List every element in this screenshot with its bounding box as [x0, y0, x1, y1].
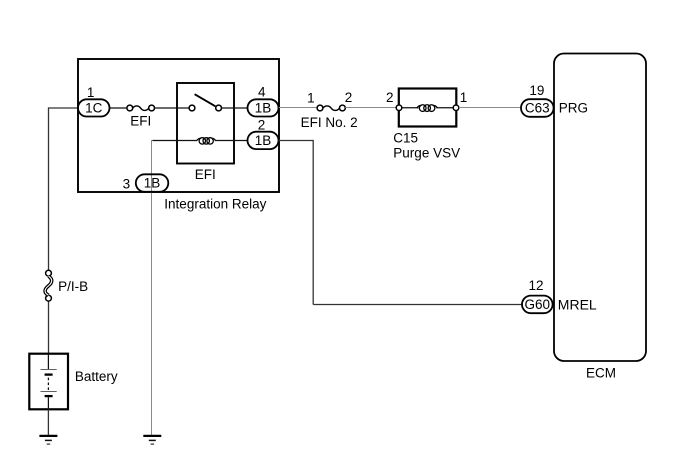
- svg-text:4: 4: [258, 84, 266, 99]
- switch blade: [195, 94, 216, 106]
- wire inner box to connector 1B pin2: [234, 140, 248, 142]
- wire battery feed vertical: [48, 107, 50, 270]
- fusible link P/I-B: [45, 270, 52, 301]
- wire inner box to switch contact: [177, 107, 189, 109]
- svg-text:EFI: EFI: [195, 167, 216, 182]
- wire MREL vertical: [312, 140, 314, 305]
- svg-text:3: 3: [123, 177, 131, 192]
- svg-text:C15: C15: [393, 130, 418, 145]
- wire fusible link to battery: [48, 301, 50, 354]
- wire fuse EFI to relay switch: [155, 107, 178, 109]
- relay inner box (EFI relay): [177, 83, 234, 164]
- wire inner box to connector 1B pin4: [234, 107, 248, 109]
- svg-text:Battery: Battery: [75, 369, 118, 384]
- ECM box: [554, 54, 646, 362]
- svg-text:MREL: MREL: [558, 297, 597, 313]
- wire battery feed horizontal (node to 1C): [49, 107, 79, 109]
- svg-text:Purge VSV: Purge VSV: [393, 145, 460, 160]
- connector 1B pin 2: [248, 132, 279, 149]
- svg-text:1B: 1B: [255, 101, 272, 116]
- wire purge VSV to ECM C63: [459, 107, 521, 109]
- svg-text:PRG: PRG: [559, 101, 588, 116]
- svg-text:2: 2: [386, 90, 394, 105]
- wire coil to pin3 branch: [152, 140, 177, 142]
- switch contact left: [189, 105, 195, 111]
- svg-text:19: 19: [529, 83, 544, 98]
- svg-text:1: 1: [460, 90, 468, 105]
- connector 1C: [78, 99, 110, 116]
- wire relay coil to ground (vertical): [151, 140, 153, 435]
- svg-text:C63: C63: [525, 101, 550, 116]
- svg-text:1: 1: [307, 90, 315, 105]
- svg-text:12: 12: [528, 278, 543, 293]
- connector 1B pin 3: [136, 174, 169, 192]
- connector 1B pin 4: [248, 99, 279, 116]
- connector G60: [522, 296, 553, 314]
- svg-text:1C: 1C: [85, 101, 103, 116]
- svg-text:2: 2: [345, 90, 353, 105]
- wire 1C to fuse EFI: [110, 107, 128, 109]
- relay box: Integration Relay: [78, 59, 279, 192]
- connector C63: [521, 99, 554, 117]
- switch contact right: [216, 105, 222, 111]
- fuse EFI No. 2: [317, 105, 345, 111]
- ground (battery): [39, 436, 57, 444]
- fuse EFI: [127, 105, 155, 111]
- svg-text:EFI: EFI: [130, 113, 151, 128]
- battery B1: [29, 354, 68, 410]
- svg-text:EFI No. 2: EFI No. 2: [301, 115, 358, 130]
- wire battery to ground: [47, 409, 49, 435]
- relay coil: [177, 138, 234, 144]
- svg-text:ECM: ECM: [586, 366, 616, 381]
- svg-text:1B: 1B: [144, 176, 161, 191]
- wire MREL horizontal to G60: [313, 304, 522, 306]
- purge VSV C15 box: [396, 89, 459, 127]
- svg-text:1: 1: [87, 85, 95, 100]
- svg-text:P/I-B: P/I-B: [58, 279, 88, 294]
- svg-text:Integration Relay: Integration Relay: [164, 196, 266, 211]
- wire switch to inner box right: [222, 107, 235, 109]
- ground (relay coil): [143, 436, 161, 444]
- svg-text:G60: G60: [525, 297, 551, 312]
- wire fuse EFI No.2 to purge VSV: [345, 107, 396, 109]
- svg-text:2: 2: [258, 117, 266, 132]
- wire relay to fuse EFI No.2: [279, 107, 317, 109]
- wire 1B pin2 to MREL corner: [279, 140, 314, 142]
- svg-text:1B: 1B: [255, 133, 272, 148]
